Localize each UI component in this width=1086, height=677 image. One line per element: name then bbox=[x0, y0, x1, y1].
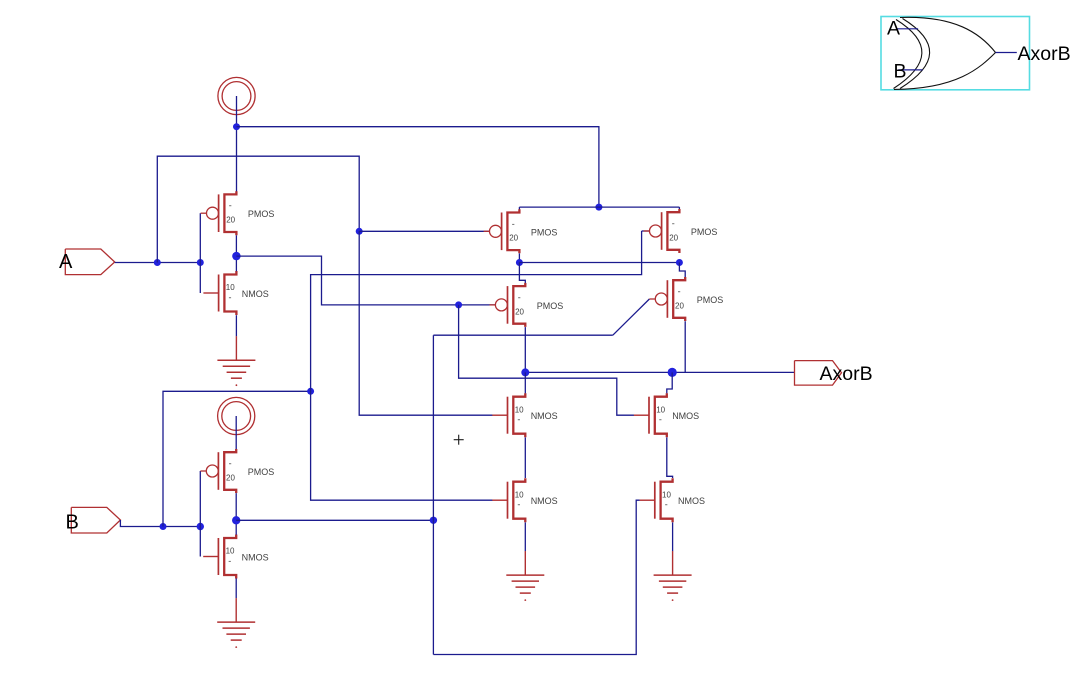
transistor U7 NMOS (pull-down stack 1 top) bbox=[492, 393, 557, 437]
XOR label B bbox=[894, 61, 907, 83]
svg-text:B: B bbox=[66, 512, 79, 534]
ground GND4 (stack 2) bbox=[654, 551, 692, 601]
output port AxorB bbox=[795, 361, 842, 386]
XOR input wire A bbox=[897, 28, 918, 30]
svg-text:A: A bbox=[887, 18, 900, 40]
pmos M3 gate wire bbox=[199, 471, 201, 557]
ground GND2 (inverter B) bbox=[217, 598, 255, 648]
transistor M3 PMOS (inverter B pull-up) bbox=[200, 449, 274, 493]
node inverter B output (Bbar) bbox=[232, 516, 240, 524]
svg-text:PMOS: PMOS bbox=[531, 227, 558, 237]
node VDD1 junction bbox=[233, 123, 240, 130]
svg-text:B: B bbox=[894, 61, 907, 83]
wire Abar to U5 gate bbox=[236, 256, 495, 305]
origin marker + bbox=[454, 435, 464, 445]
wire VDD1 junction to right PMOS pair bbox=[237, 127, 599, 207]
svg-text:NMOS: NMOS bbox=[678, 496, 705, 506]
wire output line to port bbox=[525, 371, 794, 373]
wire Bbar output line bbox=[236, 519, 433, 521]
svg-text:-: - bbox=[665, 500, 668, 510]
svg-text:10: 10 bbox=[515, 405, 524, 414]
svg-text:-: - bbox=[228, 556, 231, 566]
transistor U9 NMOS (pull-down stack 1 bottom) bbox=[492, 478, 557, 522]
wire stub rail to U3 source bbox=[518, 207, 520, 209]
input port B bbox=[71, 507, 120, 533]
svg-text:20: 20 bbox=[226, 473, 235, 482]
node inverter A output (Abar) bbox=[232, 252, 240, 260]
label AxorB bbox=[820, 363, 873, 385]
node B net junction bbox=[307, 388, 314, 395]
svg-text:A: A bbox=[59, 251, 73, 273]
svg-text:NMOS: NMOS bbox=[531, 496, 558, 506]
svg-text:-: - bbox=[659, 415, 662, 425]
node A wire junction bbox=[154, 259, 161, 266]
svg-text:NMOS: NMOS bbox=[672, 411, 699, 421]
transistor U10 NMOS (pull-down stack 2 bottom) bbox=[640, 478, 705, 522]
node Abar junction bbox=[455, 301, 462, 308]
node U4 drain junction bbox=[676, 259, 683, 266]
node output right junction bbox=[668, 368, 677, 377]
wire B net vertical to gates bbox=[311, 231, 642, 500]
svg-text:NMOS: NMOS bbox=[242, 553, 269, 563]
label B bbox=[66, 512, 79, 534]
label A bbox=[59, 251, 73, 273]
XOR gate symbol bbox=[894, 17, 996, 89]
wire jog U3 drain to U5 source bbox=[519, 263, 525, 284]
wire M4 source to ground bbox=[235, 578, 237, 598]
power flag VDD1 (double circle) bbox=[218, 77, 255, 114]
svg-text:NMOS: NMOS bbox=[242, 289, 269, 299]
svg-text:10: 10 bbox=[226, 283, 235, 292]
wire U3 drain down bbox=[518, 253, 520, 262]
wire Abar down-across to NMOS U8 gate bbox=[459, 305, 634, 415]
transistor U8 NMOS (pull-down stack 2 top) bbox=[634, 393, 699, 437]
svg-text:-: - bbox=[678, 287, 681, 297]
svg-text:PMOS: PMOS bbox=[248, 209, 275, 219]
transistor M4 NMOS (inverter B pull-down) bbox=[203, 535, 268, 579]
pmos M1 gate wire bbox=[199, 213, 201, 293]
svg-text:PMOS: PMOS bbox=[691, 227, 718, 237]
svg-text:AxorB: AxorB bbox=[1018, 43, 1071, 65]
node Bbar junction bbox=[430, 517, 437, 524]
transistor U4 PMOS (pull-up branch 2 top) bbox=[644, 209, 718, 253]
ground GND1 (inverter A) bbox=[217, 336, 255, 386]
wire output down to NMOS U7 bbox=[524, 372, 526, 393]
svg-text:20: 20 bbox=[669, 233, 678, 242]
transistor M2 NMOS (inverter A pull-down) bbox=[203, 271, 268, 315]
wire diagonal to PMOS U6 gate bbox=[613, 299, 650, 335]
svg-text:20: 20 bbox=[509, 234, 518, 243]
svg-text:-: - bbox=[229, 292, 232, 302]
wire VDD2 down to PMOS source bbox=[235, 416, 237, 449]
svg-text:NMOS: NMOS bbox=[531, 411, 558, 421]
wire Bbar vertical trunk bbox=[432, 335, 434, 654]
wire U10 source to ground bbox=[672, 522, 674, 551]
svg-text:-: - bbox=[512, 219, 515, 229]
transistor U6 PMOS (pull-up branch 2 bottom) bbox=[649, 277, 723, 321]
wire bottom rail to NMOS U10 gate bbox=[433, 500, 639, 654]
wire B port to inverter bbox=[120, 520, 200, 527]
svg-text:PMOS: PMOS bbox=[697, 295, 724, 305]
wire stub rail to U4 source bbox=[678, 207, 680, 209]
transistor M1 PMOS (inverter A pull-up) bbox=[201, 191, 275, 235]
svg-text:-: - bbox=[517, 500, 520, 510]
wire top rail of right PMOS pair bbox=[519, 206, 679, 208]
node U3 drain junction bbox=[516, 259, 523, 266]
wire inverter A drains bbox=[235, 235, 237, 271]
XOR label AxorB bbox=[1018, 43, 1071, 65]
wire A net down to NMOS U7 gate bbox=[359, 231, 492, 415]
node output left junction bbox=[521, 368, 529, 376]
node A net junction bbox=[356, 228, 363, 235]
wire Bbar to diagonal bbox=[433, 334, 612, 336]
XOR input wire B bbox=[898, 69, 922, 71]
transistor U5 PMOS (pull-up branch 1 bottom) bbox=[490, 283, 564, 327]
svg-text:20: 20 bbox=[226, 216, 235, 225]
wire VDD1 down to PMOS source bbox=[236, 96, 238, 192]
wire U6 drain to output bbox=[684, 321, 686, 372]
XOR label A bbox=[887, 18, 900, 40]
svg-text:20: 20 bbox=[515, 307, 524, 316]
svg-text:-: - bbox=[517, 415, 520, 425]
svg-text:10: 10 bbox=[515, 490, 524, 499]
wire U9 source to ground bbox=[524, 522, 526, 551]
svg-text:-: - bbox=[518, 292, 521, 302]
transistor U3 PMOS (pull-up branch 1 top) bbox=[484, 209, 558, 253]
wire drain link U3-U4 bbox=[519, 262, 679, 264]
node VDD rail junction at right PMOS pair bbox=[595, 204, 602, 211]
wire output jog down to NMOS U8 bbox=[667, 372, 672, 393]
wire A net to PMOS U3 gate bubble bbox=[359, 230, 490, 232]
wire jog U4 drain to U6 source bbox=[679, 263, 685, 278]
svg-text:-: - bbox=[229, 201, 232, 211]
wire inverter B drains bbox=[235, 493, 237, 535]
svg-text:-: - bbox=[229, 459, 232, 469]
svg-text:PMOS: PMOS bbox=[248, 467, 275, 477]
wire A up-over to net bbox=[157, 156, 359, 262]
svg-text:10: 10 bbox=[656, 405, 665, 414]
ground GND3 (stack 1) bbox=[506, 551, 544, 601]
svg-text:PMOS: PMOS bbox=[537, 301, 564, 311]
wire B net up-over to U4/U6 gates bbox=[163, 391, 311, 526]
svg-text:10: 10 bbox=[662, 490, 671, 499]
node B wire junction bbox=[160, 523, 167, 530]
svg-text:AxorB: AxorB bbox=[820, 363, 873, 385]
svg-text:20: 20 bbox=[675, 301, 684, 310]
power flag VDD2 (double circle) bbox=[218, 397, 255, 434]
wire jog U8-U10 link bbox=[667, 437, 673, 478]
svg-text:10: 10 bbox=[226, 547, 235, 556]
wire U5 drain to output bbox=[524, 327, 526, 372]
input port A bbox=[65, 249, 114, 275]
node B gate junction bbox=[197, 523, 204, 530]
XOR output wire bbox=[996, 52, 1017, 54]
symbol frame (cyan box) bbox=[881, 17, 1030, 90]
wire PMOS U4 gate stub bbox=[642, 230, 650, 232]
svg-text:-: - bbox=[672, 219, 675, 229]
wire U7-U9 link bbox=[524, 437, 526, 478]
node A gate junction bbox=[197, 259, 204, 266]
wire A port to inverter bbox=[115, 262, 201, 264]
wire M2 source to ground bbox=[235, 315, 237, 336]
